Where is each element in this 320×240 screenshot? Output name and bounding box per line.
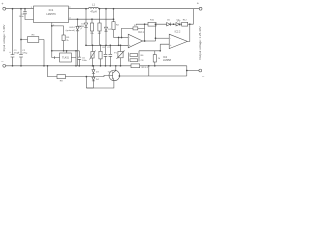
svg-text:LM358: LM358 bbox=[163, 58, 171, 62]
svg-text:C8: C8 bbox=[141, 60, 145, 62]
svg-text:IC2.2: IC2.2 bbox=[175, 30, 181, 33]
svg-text:24k: 24k bbox=[90, 33, 94, 35]
svg-text:4k7: 4k7 bbox=[98, 33, 102, 35]
svg-text:C6: C6 bbox=[102, 47, 106, 49]
svg-text:100n: 100n bbox=[82, 60, 88, 62]
svg-text:+: + bbox=[170, 44, 172, 47]
svg-text:TL431: TL431 bbox=[62, 57, 69, 60]
svg-text:47µH: 47µH bbox=[90, 10, 96, 14]
svg-text:(optional): (optional) bbox=[66, 29, 75, 32]
svg-text:–: – bbox=[1, 59, 4, 64]
svg-text:+: + bbox=[18, 51, 20, 54]
svg-text:R10: R10 bbox=[150, 20, 155, 22]
svg-text:+: + bbox=[9, 51, 11, 54]
svg-text:P1: P1 bbox=[114, 53, 117, 55]
svg-text:LM2576: LM2576 bbox=[46, 12, 56, 16]
svg-text:D3: D3 bbox=[96, 72, 100, 74]
svg-text:1k: 1k bbox=[158, 58, 161, 60]
svg-text:L1: L1 bbox=[92, 3, 95, 7]
svg-text:R8: R8 bbox=[60, 81, 64, 83]
svg-text:-: - bbox=[129, 37, 130, 40]
svg-text:+: + bbox=[1, 1, 4, 6]
svg-text:SB360: SB360 bbox=[78, 26, 85, 28]
svg-text:R3: R3 bbox=[32, 35, 36, 37]
svg-text:Output voltage: 1.25-30V: Output voltage: 1.25-30V bbox=[198, 26, 202, 59]
svg-text:IC1: IC1 bbox=[49, 8, 54, 12]
svg-text:R2: R2 bbox=[116, 25, 120, 27]
svg-text:IC2.1: IC2.1 bbox=[138, 31, 144, 34]
svg-text:-: - bbox=[170, 37, 171, 40]
svg-text:100n: 100n bbox=[19, 16, 25, 18]
svg-text:2k: 2k bbox=[66, 40, 69, 42]
svg-text:D2: D2 bbox=[108, 29, 112, 31]
svg-text:R12: R12 bbox=[183, 20, 188, 22]
svg-text:–: – bbox=[202, 74, 205, 79]
svg-text:470µ: 470µ bbox=[22, 53, 28, 55]
svg-text:D4: D4 bbox=[96, 79, 100, 81]
svg-text:Input voltage: 7-40V: Input voltage: 7-40V bbox=[2, 25, 6, 52]
svg-text:+: + bbox=[197, 1, 200, 6]
svg-text:D5: D5 bbox=[167, 20, 171, 22]
svg-text:R6: R6 bbox=[141, 55, 145, 57]
svg-text:R9 0.1: R9 0.1 bbox=[142, 67, 149, 69]
